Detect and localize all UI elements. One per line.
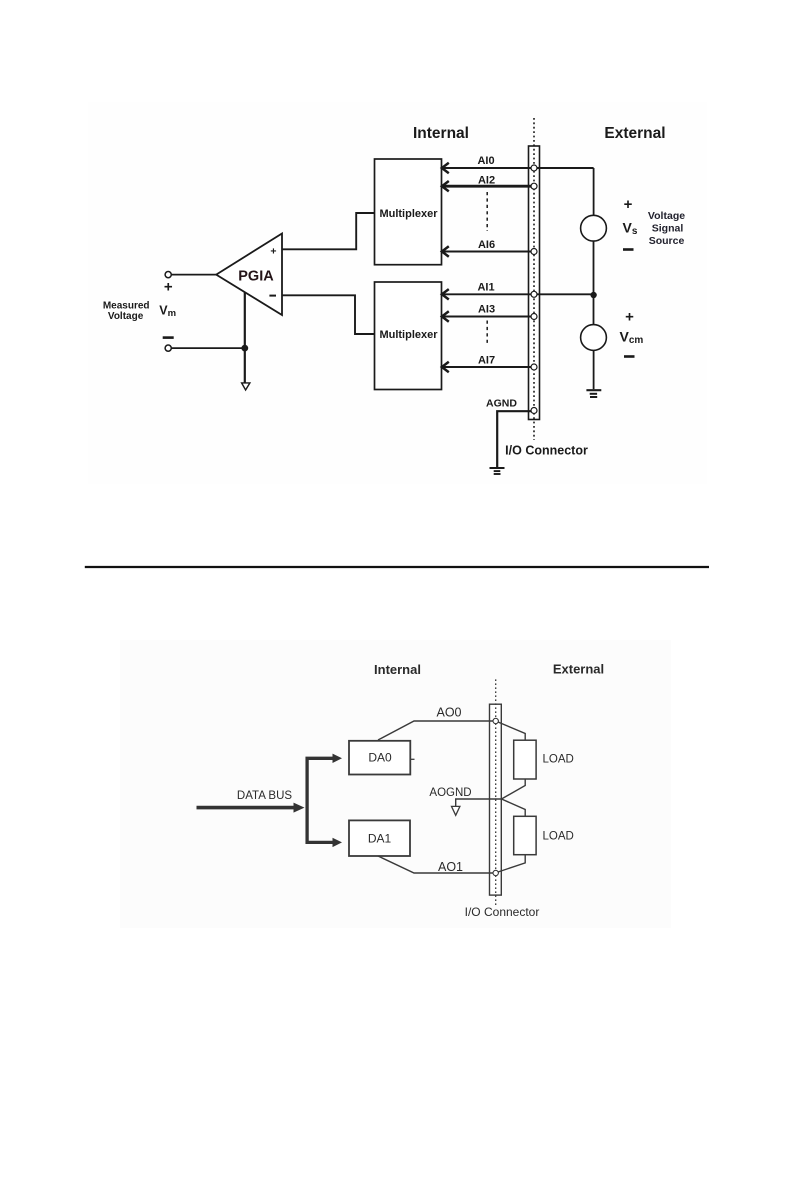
pin circle AGND [531, 408, 537, 414]
ground (earth symbol under Vcm) [586, 390, 601, 397]
I/O connector J1 (top diagram) [529, 146, 540, 420]
pin arrow AI6 [442, 246, 449, 256]
wire Vcm to ground [593, 350, 595, 389]
pin circle AI3 [531, 314, 537, 320]
pin circle AO0 [493, 718, 498, 723]
figure background (bottom diagram) [120, 640, 671, 928]
pin circle AI7 [531, 364, 537, 370]
connector centre dotted line (bottom) [495, 679, 497, 906]
data bus arrow [197, 806, 295, 810]
svg-text:AI2: AI2 [478, 175, 495, 187]
wire AI1 [442, 293, 594, 295]
bus branch wire [307, 758, 333, 842]
svg-text:LOAD: LOAD [543, 831, 574, 843]
multiplexer U3 (lower) [375, 282, 442, 390]
DAC U4 DA0 [349, 741, 410, 775]
svg-text:Signal: Signal [652, 223, 684, 235]
svg-text:External: External [604, 125, 665, 142]
svg-text:Measured: Measured [103, 300, 150, 311]
svg-text:PGIA: PGIA [238, 269, 274, 285]
svg-text:+: + [624, 196, 633, 213]
resistor R1 LOAD [514, 740, 536, 779]
pin circle AI6 [531, 249, 537, 255]
svg-text:DA1: DA1 [368, 832, 392, 846]
pin arrow AI7 [442, 362, 449, 372]
svg-text:External: External [553, 662, 604, 677]
wire AI0 [442, 167, 594, 169]
wire connector to load R1 [498, 722, 525, 740]
svg-text:DA0: DA0 [368, 751, 392, 765]
terminal T1 (measured voltage +) [165, 272, 171, 278]
figure background (top diagram) [88, 102, 707, 484]
wire AGND to ground [497, 411, 533, 467]
terminal T2 (measured voltage -) [165, 345, 171, 351]
svg-text:AI6: AI6 [478, 239, 495, 251]
resistor R2 LOAD [514, 816, 536, 854]
svg-text:AO1: AO1 [438, 860, 463, 874]
label - (Vcm) [624, 355, 635, 358]
wire load R2 to connector AO1 [498, 855, 525, 872]
svg-text:Internal: Internal [374, 662, 421, 677]
svg-text:+: + [164, 279, 173, 296]
pin arrow AI3 [442, 311, 449, 321]
wire AI2 [442, 185, 534, 188]
pin stub (DA0 right edge) [410, 758, 414, 760]
connector centre dotted line [533, 118, 535, 440]
node B (junction with AI1) [590, 292, 596, 298]
svg-text:AI7: AI7 [478, 355, 495, 367]
op-amp U1 PGIA [216, 234, 282, 316]
I/O connector J2 (bottom diagram) [490, 704, 502, 895]
label - (terminal T2) [163, 336, 174, 339]
wire PGIA lower edge to ground [244, 292, 246, 383]
pin arrow AI1 [442, 289, 449, 299]
svg-text:Multiplexer: Multiplexer [379, 208, 438, 220]
wire Vs to node B [593, 241, 595, 325]
multiplexer U2 (upper) [375, 159, 442, 265]
wire AI6 [442, 251, 534, 253]
separator rule [85, 566, 709, 568]
svg-text:+: + [270, 246, 276, 258]
voltage source Vcm [581, 325, 607, 351]
svg-text:AOGND: AOGND [429, 787, 471, 799]
node A (junction dot) [241, 345, 248, 352]
wire AI7 [442, 366, 534, 368]
svg-text:AGND: AGND [486, 398, 517, 410]
svg-text:+: + [625, 309, 634, 326]
svg-text:DATA BUS: DATA BUS [237, 790, 292, 802]
ground (AGND earth symbol) [490, 468, 505, 474]
ground (AOGND open arrow) [452, 806, 460, 815]
svg-text:AI1: AI1 [477, 282, 494, 294]
pin circle AI0 [531, 165, 537, 171]
pin arrow into DA0 [333, 754, 343, 763]
wire AI0 to Vs [593, 168, 595, 216]
pin arrow AI2 [442, 181, 449, 191]
pin arrow AI0 [442, 163, 449, 173]
svg-text:I/O Connector: I/O Connector [505, 444, 588, 458]
svg-text:AO0: AO0 [436, 706, 461, 720]
pin circle AI2 [531, 183, 537, 189]
wire T2 to node A [171, 347, 244, 349]
wire AO1 [378, 856, 494, 873]
svg-text:Multiplexer: Multiplexer [379, 329, 438, 341]
svg-text:LOAD: LOAD [543, 754, 574, 766]
voltage source Vs [581, 215, 607, 241]
svg-text:Internal: Internal [413, 125, 469, 142]
wire AOGND node to load R2 [502, 799, 526, 816]
wire load R1 to AOGND node [502, 779, 526, 799]
pin arrow into DA1 [333, 838, 343, 847]
svg-text:Voltage: Voltage [108, 311, 144, 322]
wire AOGND [456, 799, 502, 806]
label - (Vs) [623, 248, 634, 251]
wire PGIA + input to multiplexer U2 [282, 213, 375, 249]
svg-text:I/O Connector: I/O Connector [465, 905, 540, 919]
dotted continuation AI2..AI6 [486, 192, 488, 231]
pin circle AO1 [493, 870, 498, 875]
svg-text:Source: Source [649, 235, 685, 247]
dotted continuation AI3..AI7 [486, 321, 488, 345]
pin - (PGIA inverting) [269, 295, 276, 297]
ground (arrow symbol under PGIA) [242, 383, 250, 390]
wire AI3 [442, 316, 534, 318]
svg-text:Voltage: Voltage [648, 210, 685, 222]
svg-text:AI3: AI3 [478, 304, 495, 316]
svg-text:AI0: AI0 [477, 155, 494, 167]
wire T1 to PGIA apex [171, 274, 216, 276]
wire AO0 [378, 721, 494, 740]
DAC U5 DA1 [349, 820, 410, 856]
pin circle AI1 [531, 291, 537, 297]
wire PGIA - input to multiplexer U3 [282, 295, 375, 334]
